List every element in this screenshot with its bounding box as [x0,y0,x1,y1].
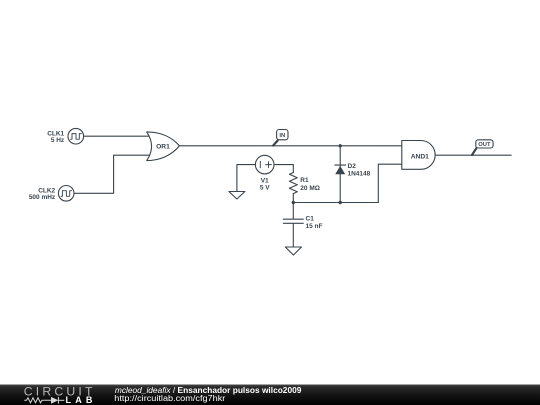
wire V1 left to ground [237,165,256,192]
svg-text:500 mHz: 500 mHz [29,194,56,201]
wire C1 bottom lead [292,224,294,247]
clock source CLK1 [68,128,84,144]
svg-text:IN: IN [279,133,285,139]
svg-text:D2: D2 [348,163,357,170]
ground under C1 [285,247,301,255]
svg-text:5 V: 5 V [260,184,270,191]
wire D2 branch vertical [339,146,341,203]
svg-text:http://circuitlab.com/cfg7hkr: http://circuitlab.com/cfg7hkr [114,394,225,403]
net flag IN [273,130,288,146]
wire CLK2 to OR1 bottom input [74,155,151,193]
svg-text:R1: R1 [300,177,309,184]
resistor R1 [289,173,297,194]
svg-text:1N4148: 1N4148 [348,171,371,178]
svg-text:C1: C1 [306,216,315,223]
ground under V1 [229,192,245,200]
wire V1 right to R1 top [274,165,293,173]
or-gate OR1 [147,132,180,161]
svg-text:20 MΩ: 20 MΩ [300,185,320,192]
wire to AND1 bottom input [378,164,402,202]
wire OR1 output to AND1 top input [179,145,402,147]
svg-text:15 nF: 15 nF [306,223,323,230]
node junction dot D2 bottom [339,201,342,204]
and-gate AND1 [402,141,435,170]
capacitor C1 [283,219,303,223]
svg-text:LAB: LAB [66,395,97,405]
logo resistor-diode squiggle [24,397,64,404]
wire C1 top lead [292,203,294,219]
svg-text:OUT: OUT [478,142,491,148]
svg-text:AND1: AND1 [411,153,429,160]
wire AND1 output [435,154,511,156]
wire CLK1 to OR1 top input [84,135,151,137]
svg-text:OR1: OR1 [156,144,170,151]
svg-text:5 Hz: 5 Hz [51,137,65,144]
clock source CLK2 [58,186,74,202]
wire bottom node horizontal [293,202,378,204]
voltage source V1 [255,155,274,174]
node junction dot R1/C1 [292,201,295,204]
node junction dot D2 top [339,144,342,147]
net flag OUT [472,140,493,155]
diode D2 [335,165,346,174]
wire R1 bottom to node [292,194,294,203]
